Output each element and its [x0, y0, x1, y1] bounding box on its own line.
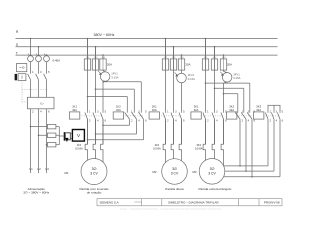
wire feeder 1 down [30, 109, 32, 173]
svg-text:32A: 32A [194, 108, 199, 112]
wire winding return y165.4 [224, 165, 268, 167]
svg-text:32A: 32A [256, 108, 261, 112]
wire 2 drop 1 [165, 39, 167, 59]
contactor 3K3 linkage [263, 115, 280, 117]
wire 3 phase3 lower [223, 84, 225, 112]
contactor 3K1 linkage [201, 115, 224, 117]
svg-text:20A: 20A [227, 63, 232, 67]
fuse F voltmeter 3 [47, 143, 56, 147]
motor M3 [199, 159, 225, 185]
title block divider 4 [258, 199, 260, 206]
svg-text:Partida estrela-triângulo: Partida estrela-triângulo [198, 187, 231, 191]
wire Q1 mid 1 [30, 62, 32, 74]
wire 1 drop 2 [95, 47, 97, 59]
contactor 2K1 linkage [159, 115, 182, 117]
svg-text:3 CV: 3 CV [208, 171, 216, 175]
wire 1 down x102.5 [102, 119, 104, 144]
wire 2 down x173 [173, 119, 175, 144]
svg-text:3∅: 3∅ [92, 167, 97, 171]
node tap 2F1 [165, 38, 167, 40]
bus wire T [16, 54, 278, 56]
title block frame [97, 199, 282, 206]
wire loop top y96 [87, 96, 89, 98]
svg-text:3-15A: 3-15A [233, 76, 240, 80]
contactor 1K1 linkage [79, 115, 103, 117]
wire 2 drop 2 [173, 47, 175, 59]
svg-text:1K2: 1K2 [116, 104, 121, 108]
wire Q1 mid 3 [46, 62, 48, 74]
contactor 1K2 linkage [123, 115, 144, 117]
wire loop bottom y133.5 [136, 119, 138, 134]
wire M3 lead x214 [214, 150, 216, 159]
svg-text:3∅: 3∅ [210, 167, 215, 171]
wire M3 lead x205 [205, 150, 207, 160]
wire M2 lead x181 [181, 150, 183, 161]
wire M2 lead x165 [165, 150, 167, 163]
wire 1 down x87 [87, 119, 89, 144]
node voltmeter tap 1 [30, 126, 32, 128]
title block divider 3 [237, 199, 239, 206]
svg-text:32A: 32A [152, 108, 157, 112]
wire 1 drop 3 [102, 55, 104, 59]
wire 2 down x165 [165, 119, 167, 144]
wire 2 phase3 upper [181, 70, 183, 73]
svg-text:3 CV: 3 CV [171, 172, 179, 176]
breaker Q1 pole circle 1 [28, 56, 34, 62]
wire 2 drop 3 [181, 55, 183, 59]
bus wire S [16, 46, 278, 48]
wire star bridge [268, 104, 281, 106]
wire loop top y88.6 [95, 88, 97, 90]
svg-text:32A: 32A [72, 108, 77, 112]
svg-text:L1: L1 [30, 167, 34, 171]
wire 3 down x214 [214, 119, 216, 144]
node tap 1F1 [87, 38, 89, 40]
wire voltmeter bus [58, 127, 60, 145]
wire voltmeter tap 1 [31, 126, 48, 128]
wire M2 lead x173 [173, 150, 175, 159]
svg-text:0-15A: 0-15A [188, 77, 195, 81]
wire loop top y81.3 [102, 81, 104, 83]
wire Q1 to trip box 3 [46, 80, 48, 98]
breaker tick 3 [44, 54, 45, 55]
node tap Q1 phase 2 [38, 46, 40, 48]
contactor 1K2 poles [126, 97, 128, 113]
wire selector to voltmeter a [70, 132, 72, 134]
svg-text:380V ~ 60Hz: 380V ~ 60Hz [94, 33, 115, 37]
svg-text:M2: M2 [152, 170, 156, 174]
wire selector to voltmeter b [70, 137, 72, 139]
wire 2 phase3 lower [181, 83, 183, 112]
wire M1 lead x95 [95, 150, 97, 159]
svg-text:20A: 20A [186, 63, 191, 67]
wire 3 drop 3 [223, 55, 225, 59]
node tap Q1 phase 3 [46, 54, 48, 56]
wire 3 phase2 [214, 47, 216, 112]
accessory box U1 [17, 64, 27, 72]
svg-text:3∅ ~ 380V ~ 60Hz: 3∅ ~ 380V ~ 60Hz [23, 191, 49, 195]
breaker tick 1 [28, 54, 29, 55]
wire voltmeter tap 2 [39, 134, 48, 136]
wire 3 drop 2 [214, 47, 216, 59]
svg-text:M3: M3 [192, 170, 196, 174]
wire star stub x279.5 [279, 105, 281, 111]
svg-text:3F4: 3F4 [196, 143, 201, 147]
motor M2 [162, 159, 188, 185]
overload relay 2F4 [163, 119, 165, 150]
breaker Q1 contact blade 2 [36, 74, 39, 80]
accessory actuator black bar [15, 74, 18, 80]
contactor 3K1 poles [205, 111, 207, 112]
node voltmeter tap 3 [46, 144, 48, 146]
wire winding return y170.6 [225, 170, 274, 172]
svg-text:3 CV: 3 CV [90, 172, 98, 176]
contactor 3K2 linkage [236, 115, 252, 117]
svg-text:PROINV-98: PROINV-98 [264, 200, 280, 204]
svg-text:3FV1: 3FV1 [233, 73, 240, 77]
wire 1 phase2 to pole [95, 47, 97, 112]
node tap 3F2 [214, 46, 216, 48]
svg-text:3∅: 3∅ [172, 167, 177, 171]
wire winding return y176.2 [224, 176, 280, 178]
breaker Q1 pole circle 2 [36, 56, 42, 62]
wire M1 lead x87 [87, 150, 89, 160]
svg-text:S: S [16, 43, 18, 47]
wire M3 lead x223 [223, 150, 225, 166]
wire Q1 drop 1 [30, 39, 32, 56]
wire loop bottom y124.8 [129, 119, 131, 125]
svg-text:0-40A: 0-40A [53, 58, 61, 62]
node tap 3F3 [223, 54, 225, 56]
node tap Q1 phase 1 [30, 38, 32, 40]
dashed stub to trip box [22, 101, 28, 103]
node tap 1F3 [102, 54, 104, 56]
dashed linkage horizontal [22, 89, 47, 91]
wire Q1 mid 2 [38, 62, 40, 74]
wire fuse out 3 [56, 144, 59, 146]
wire 3 drop 1 [205, 39, 207, 59]
wire feeder 3 down [46, 109, 48, 173]
wire M1 lead x102.5 [102, 150, 104, 162]
svg-text:2F4: 2F4 [155, 143, 160, 147]
wire voltmeter tap 3 [46, 144, 49, 146]
svg-text:M1: M1 [64, 171, 68, 175]
wire 2 down x181 [181, 119, 183, 144]
node tap 2F3 [181, 54, 183, 56]
contactor 3K2 poles [237, 94, 239, 113]
adjustable release 1FV1 [100, 72, 110, 82]
adjustable release 2FV1 [177, 73, 187, 83]
selector switch SW1 [64, 132, 66, 141]
svg-text:3K3: 3K3 [256, 104, 261, 108]
svg-text:0,5-8A: 0,5-8A [75, 147, 83, 151]
wire 1 phase1 to pole [87, 39, 89, 112]
contactor 3K3 poles [267, 111, 269, 112]
breaker tick 2 [36, 54, 37, 55]
svg-text:SIEMENS S.A: SIEMENS S.A [100, 200, 119, 204]
breaker Q1 contact blade 3 [44, 74, 47, 80]
svg-text:32A: 32A [229, 108, 234, 112]
wire Q1 to trip box 1 [30, 80, 32, 98]
voltmeter V1 [72, 130, 84, 142]
wire to selector [59, 135, 63, 137]
svg-text:3K1: 3K1 [194, 104, 199, 108]
svg-text:2K1: 2K1 [152, 104, 157, 108]
svg-text:L3: L3 [46, 167, 50, 171]
svg-text:de rotação: de rotação [87, 191, 102, 195]
overload relay 3F4 [203, 119, 205, 150]
svg-text:3K2: 3K2 [229, 104, 234, 108]
svg-text:1F4: 1F4 [77, 143, 82, 147]
contactor 1K1 poles [87, 111, 89, 112]
wire 1 down x95 [95, 119, 97, 144]
wire star stub x267.5 [267, 105, 269, 111]
dashed linkage vertical [21, 81, 23, 103]
wire Q1 to trip box 2 [38, 80, 40, 98]
wire Q1 drop 2 [38, 47, 40, 56]
wire Q1 drop 3 [46, 54, 48, 57]
title block divider 1 [141, 199, 143, 206]
wire 3 down x223 [223, 119, 225, 144]
svg-text:20A: 20A [107, 63, 112, 67]
fuse F voltmeter 1 [47, 124, 56, 128]
svg-text:SIMELETRO – DIAGRAMA TRIFILAR: SIMELETRO – DIAGRAMA TRIFILAR [168, 200, 219, 204]
contactor 2K1 poles [165, 111, 167, 112]
wire 1 drop 1 [87, 39, 89, 59]
svg-text:3-13A: 3-13A [111, 75, 118, 79]
fuse F voltmeter 2 [47, 133, 56, 137]
wire 2 phase2 [173, 47, 175, 112]
wire 1 phase3 lower [102, 82, 104, 111]
title block midline [135, 201, 142, 203]
wire star stub x273.5 [273, 105, 275, 111]
wire loop bottom y139.2 [143, 119, 145, 140]
breaker Q1 pole circle 3 [44, 56, 50, 62]
wire 3 phase1 [205, 39, 207, 112]
wire delta loop y82.6 [205, 82, 207, 84]
wire delta loop y87.8 [214, 88, 216, 90]
motor M1 [81, 159, 107, 185]
breaker Q1 thermal trip box [28, 97, 55, 109]
wire fuse out 2 [56, 134, 59, 136]
svg-text:L2: L2 [38, 167, 42, 171]
bus wire R [16, 38, 278, 40]
svg-text:0,5-8A: 0,5-8A [153, 147, 161, 151]
svg-text:1FV1: 1FV1 [111, 72, 118, 76]
title block divider 2 [161, 199, 163, 206]
node tap 3F1 [205, 38, 207, 40]
svg-text:0,5-8A: 0,5-8A [195, 147, 203, 151]
node tap 1F2 [95, 46, 97, 48]
wire 2 phase1 [165, 39, 167, 112]
svg-text:SENAI – COMANDOS ELÉTRICOS: SENAI – COMANDOS ELÉTRICOS – DIAGRAMAS D… [120, 208, 222, 211]
adjustable release 3FV1 [222, 73, 232, 83]
wire fuse out 1 [56, 126, 59, 128]
node tap 2F2 [173, 46, 175, 48]
wire 3 down x205 [205, 119, 207, 144]
svg-text:1K1: 1K1 [72, 104, 77, 108]
svg-text:32A: 32A [116, 108, 121, 112]
accessory box release coil [18, 74, 26, 81]
svg-text:Partida direta: Partida direta [165, 187, 184, 191]
wire feeder 2 down [38, 109, 40, 173]
node voltmeter tap 2 [38, 134, 40, 136]
svg-text:2FV1: 2FV1 [188, 73, 195, 77]
breaker Q1 contact blade 1 [28, 74, 31, 80]
overload relay 1F4 [85, 119, 87, 150]
wire delta loop y93.2 [223, 93, 225, 95]
